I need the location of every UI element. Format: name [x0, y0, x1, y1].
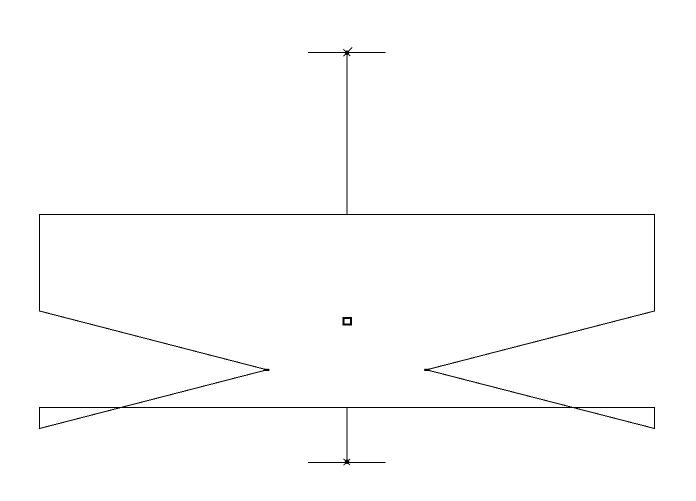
top point marker X — [343, 47, 352, 56]
wire: bottom feed line — [346, 408, 348, 463]
right apex dash — [424, 369, 429, 371]
wire: top feed line — [346, 53, 348, 215]
left apex dash — [264, 369, 269, 371]
bottom point marker X — [343, 459, 350, 465]
top tick line — [308, 52, 386, 54]
bowtie outline polygon — [40, 215, 655, 429]
bottom tick line — [308, 462, 386, 464]
center square handle — [344, 318, 352, 324]
